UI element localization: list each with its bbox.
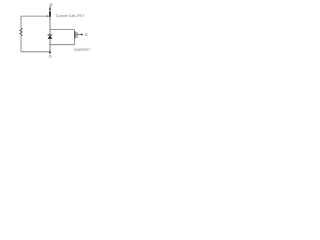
wire left vertical upper [20,16,22,28]
wire MOSFET source lead [74,38,76,44]
resistor R1 (gate-source) [20,28,22,36]
wire MOSFET gate lead [77,34,81,36]
wire MOSFET source to main vertical [50,44,75,46]
wire bottom horizontal [21,51,50,53]
MOSFET Q2 gate bar [76,32,79,37]
gate arrowhead (points right) [81,33,83,35]
source terminal circle [49,55,51,57]
diode D1 cathode bar [48,34,53,37]
drain arrowhead [49,7,51,10]
MOSFET Q2 channel bar (Si MOSFET) [74,32,75,39]
gate arrowhead of JFET [47,15,49,17]
JFET Q1 channel bar (D-mode GaN JFET) [49,11,51,17]
svg-text:Si MOSFET: Si MOSFET [74,48,91,52]
wire left vertical lower [20,36,22,52]
source arrowhead (points down) [49,52,51,55]
wire MOSFET drain lead [74,30,76,32]
svg-text:D-mode GaN JFET: D-mode GaN JFET [56,14,84,18]
wire drain lead [49,6,51,12]
wire gate of JFET (horizontal) [21,15,48,17]
gate terminal circle [85,33,87,35]
drain terminal (top circle) [50,4,52,6]
wire branch to MOSFET drain [50,29,75,31]
wire main vertical (JFET source down to diode) [49,17,51,35]
diode D1 triangle (anode up arrow) [48,35,53,38]
wire main vertical (diode to bottom junction) [49,39,51,52]
